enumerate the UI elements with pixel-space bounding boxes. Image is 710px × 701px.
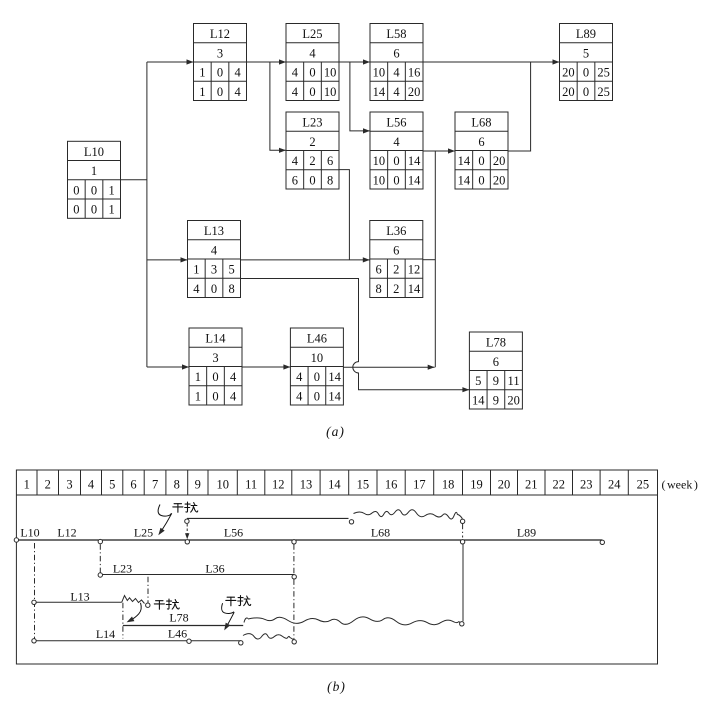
svg-text:1: 1: [193, 263, 199, 277]
svg-text:0: 0: [217, 66, 223, 80]
svg-text:L56: L56: [224, 526, 243, 540]
svg-text:L23: L23: [302, 116, 322, 130]
bar L23-L36: [98, 573, 296, 579]
svg-text:L78: L78: [169, 611, 188, 625]
svg-text:4: 4: [292, 66, 299, 80]
wire trunk: [146, 62, 148, 367]
text disturbance 2: [154, 599, 179, 609]
svg-text:L36: L36: [205, 562, 224, 576]
wire L13-L78 elbow with hop: [241, 279, 470, 393]
node L68: [455, 112, 508, 189]
svg-text:6: 6: [130, 477, 136, 491]
label L13: [70, 590, 89, 604]
arrow trunk-L13: [147, 257, 188, 262]
svg-text:4: 4: [292, 85, 299, 99]
svg-text:L78: L78: [486, 336, 506, 350]
svg-text:20: 20: [507, 393, 520, 407]
svg-text:25: 25: [637, 477, 650, 491]
svg-text:13: 13: [300, 477, 313, 491]
dashdot week1: [34, 543, 36, 641]
wire L36 stub: [423, 259, 436, 261]
svg-text:14: 14: [408, 154, 421, 168]
arrow disturbance 1: [158, 505, 172, 536]
svg-text:L13: L13: [204, 224, 224, 238]
caption (a): [326, 424, 344, 439]
svg-text:10: 10: [373, 154, 386, 168]
svg-text:11: 11: [245, 477, 257, 491]
svg-text:2: 2: [45, 477, 51, 491]
svg-text:L12: L12: [57, 526, 76, 540]
svg-text:9: 9: [493, 393, 499, 407]
node L56: [370, 112, 423, 189]
week header row: [16, 470, 657, 495]
svg-text:0: 0: [478, 173, 484, 187]
svg-text:16: 16: [385, 477, 398, 491]
svg-text:4: 4: [296, 370, 303, 384]
wire vertical week18: [462, 544, 464, 621]
label L23 L36: [113, 562, 225, 576]
wire L68-L89 riser: [508, 62, 531, 151]
svg-text:1: 1: [91, 164, 97, 178]
node L89: [560, 24, 613, 101]
svg-text:20: 20: [493, 154, 506, 168]
svg-text:10: 10: [216, 477, 229, 491]
svg-text:0: 0: [478, 154, 484, 168]
bar main chain L10-L89: [16, 539, 602, 541]
arrow trunk-L14: [147, 364, 189, 369]
node L13: [188, 221, 241, 298]
svg-text:L12: L12: [210, 27, 230, 41]
svg-text:2: 2: [309, 154, 315, 168]
svg-text:0: 0: [217, 85, 223, 99]
arrow L25-L58: [339, 59, 370, 64]
svg-text:20: 20: [562, 85, 575, 99]
chart border: [16, 470, 657, 664]
svg-text:6: 6: [327, 154, 333, 168]
svg-text:24: 24: [608, 477, 621, 491]
svg-text:4: 4: [193, 282, 200, 296]
svg-text:10: 10: [324, 66, 337, 80]
arrow L58-L89: [423, 59, 560, 64]
svg-text:L10: L10: [20, 526, 39, 540]
svg-text:4: 4: [393, 85, 400, 99]
svg-text:L25: L25: [302, 27, 322, 41]
svg-text:8: 8: [229, 282, 235, 296]
node L58: [370, 24, 423, 101]
svg-text:6: 6: [292, 173, 298, 187]
svg-text:9: 9: [195, 477, 201, 491]
svg-text:0: 0: [91, 203, 97, 217]
svg-text:0: 0: [393, 154, 399, 168]
svg-text:3: 3: [66, 477, 72, 491]
svg-text:22: 22: [553, 477, 566, 491]
svg-text:0: 0: [393, 173, 399, 187]
bar L13: [32, 596, 150, 608]
svg-text:20: 20: [498, 477, 511, 491]
arrow disturbance week8: [185, 524, 189, 539]
svg-text:0: 0: [73, 183, 79, 197]
node L36: [370, 221, 423, 298]
text disturbance 1: [173, 502, 198, 512]
svg-text:L46: L46: [307, 332, 327, 346]
wire L12-L23 drop: [270, 62, 286, 153]
svg-text:14: 14: [458, 173, 471, 187]
svg-text:0: 0: [314, 389, 320, 403]
svg-text:0: 0: [73, 203, 79, 217]
svg-text:L36: L36: [386, 224, 406, 238]
svg-text:6: 6: [376, 263, 382, 277]
svg-text:L13: L13: [70, 590, 89, 604]
svg-text:6: 6: [393, 243, 399, 257]
arrow L13-L36: [241, 257, 370, 262]
arrow L14-L46: [242, 364, 290, 369]
svg-text:14: 14: [328, 389, 341, 403]
svg-text:20: 20: [408, 85, 421, 99]
dashdot week12: [293, 544, 295, 639]
svg-text:3: 3: [217, 46, 223, 60]
svg-text:4: 4: [88, 477, 95, 491]
node L78: [469, 332, 522, 409]
svg-text:14: 14: [458, 154, 471, 168]
svg-text:(b): (b): [327, 679, 345, 694]
svg-text:2: 2: [309, 135, 315, 149]
bar L14-L46: [32, 634, 297, 645]
svg-text:9: 9: [493, 374, 499, 388]
svg-text:L56: L56: [386, 116, 406, 130]
svg-text:4: 4: [309, 46, 316, 60]
svg-text:8: 8: [174, 477, 180, 491]
svg-text:25: 25: [597, 66, 610, 80]
svg-text:1: 1: [195, 370, 201, 384]
svg-text:10: 10: [311, 351, 324, 365]
svg-text:12: 12: [272, 477, 285, 491]
svg-text:2: 2: [393, 282, 399, 296]
arrow disturbance 3: [222, 603, 235, 630]
svg-text:14: 14: [472, 393, 485, 407]
svg-text:L58: L58: [386, 27, 406, 41]
label (week): [662, 478, 698, 492]
svg-text:L46: L46: [168, 627, 187, 641]
svg-text:21: 21: [525, 477, 538, 491]
svg-text:1: 1: [195, 389, 201, 403]
svg-text:1: 1: [109, 183, 115, 197]
text disturbance 3: [226, 596, 251, 606]
svg-text:L23: L23: [113, 562, 132, 576]
svg-text:0: 0: [91, 183, 97, 197]
arrow L46-riser junction: [343, 365, 434, 370]
svg-text:L68: L68: [471, 116, 491, 130]
svg-text:14: 14: [408, 173, 421, 187]
arrow disturbance 2: [127, 603, 142, 623]
svg-text:11: 11: [508, 374, 520, 388]
svg-text:4: 4: [235, 85, 242, 99]
node L12: [194, 24, 247, 101]
svg-text:1: 1: [24, 477, 30, 491]
svg-text:5: 5: [583, 46, 589, 60]
svg-text:0: 0: [309, 85, 315, 99]
arrow trunk-L12: [147, 59, 194, 64]
svg-text:4: 4: [393, 135, 400, 149]
svg-text:0: 0: [309, 173, 315, 187]
svg-text:0: 0: [583, 85, 589, 99]
svg-text:4: 4: [292, 154, 299, 168]
svg-text:8: 8: [376, 282, 382, 296]
node circles on chain: [14, 538, 604, 545]
arrow L56-L68: [423, 148, 455, 153]
svg-text:0: 0: [212, 370, 218, 384]
svg-text:4: 4: [393, 66, 400, 80]
svg-text:0: 0: [583, 66, 589, 80]
svg-text:L89: L89: [576, 27, 596, 41]
svg-text:25: 25: [597, 85, 610, 99]
svg-text:19: 19: [470, 477, 483, 491]
svg-text:6: 6: [493, 355, 499, 369]
svg-text:L89: L89: [517, 526, 536, 540]
svg-text:6: 6: [393, 46, 399, 60]
bar L58 float: [185, 510, 465, 524]
svg-text:4: 4: [296, 389, 303, 403]
svg-text:4: 4: [230, 370, 237, 384]
svg-text:10: 10: [373, 173, 386, 187]
bar labels: [20, 526, 536, 540]
svg-text:4: 4: [211, 243, 218, 257]
svg-text:4: 4: [235, 66, 242, 80]
svg-text:0: 0: [309, 66, 315, 80]
node L23: [286, 112, 339, 189]
svg-text:L14: L14: [205, 332, 226, 346]
svg-text:16: 16: [408, 66, 421, 80]
svg-text:L10: L10: [84, 145, 104, 159]
svg-text:3: 3: [211, 263, 217, 277]
svg-text:8: 8: [327, 173, 333, 187]
arrow L12-L25: [247, 59, 287, 64]
wire junction riser: [434, 151, 436, 367]
svg-text:5: 5: [109, 477, 115, 491]
node L46: [290, 328, 343, 405]
svg-text:L25: L25: [134, 526, 153, 540]
svg-text:1: 1: [109, 203, 115, 217]
node L14: [189, 328, 242, 405]
svg-text:5: 5: [475, 374, 481, 388]
svg-text:10: 10: [373, 66, 386, 80]
svg-text:4: 4: [230, 389, 237, 403]
bar L78: [123, 617, 464, 626]
node L25: [286, 24, 339, 101]
label L78: [169, 611, 188, 625]
svg-text:5: 5: [229, 263, 235, 277]
svg-text:6: 6: [478, 135, 484, 149]
wire L10 exit: [121, 179, 147, 181]
svg-text:20: 20: [562, 66, 575, 80]
svg-text:12: 12: [408, 263, 421, 277]
node L10: [68, 141, 121, 218]
wire L23-L36 elbow: [339, 170, 349, 260]
svg-text:0: 0: [314, 370, 320, 384]
svg-text:14: 14: [328, 477, 341, 491]
dashdot week6: [147, 577, 149, 603]
dashdot week5: [122, 603, 124, 639]
svg-text:15: 15: [357, 477, 370, 491]
svg-text:18: 18: [442, 477, 455, 491]
svg-text:23: 23: [580, 477, 593, 491]
caption (b): [327, 679, 345, 694]
svg-text:0: 0: [212, 389, 218, 403]
svg-text:2: 2: [393, 263, 399, 277]
svg-text:7: 7: [152, 477, 158, 491]
svg-text:0: 0: [211, 282, 217, 296]
svg-text:(a): (a): [326, 424, 344, 439]
svg-text:L68: L68: [371, 526, 390, 540]
dashdot week18: [462, 524, 464, 538]
svg-text:L14: L14: [96, 627, 115, 641]
dashdot week4: [99, 544, 101, 572]
wire L25-L56 drop: [350, 62, 370, 134]
svg-text:17: 17: [413, 477, 426, 491]
svg-text:14: 14: [408, 282, 421, 296]
svg-text:1: 1: [199, 85, 205, 99]
svg-text:20: 20: [493, 173, 506, 187]
svg-text:1: 1: [199, 66, 205, 80]
svg-text:14: 14: [328, 370, 341, 384]
svg-text:3: 3: [212, 351, 218, 365]
label L14 L46: [96, 627, 187, 642]
svg-text:14: 14: [373, 85, 386, 99]
svg-text:10: 10: [324, 85, 337, 99]
